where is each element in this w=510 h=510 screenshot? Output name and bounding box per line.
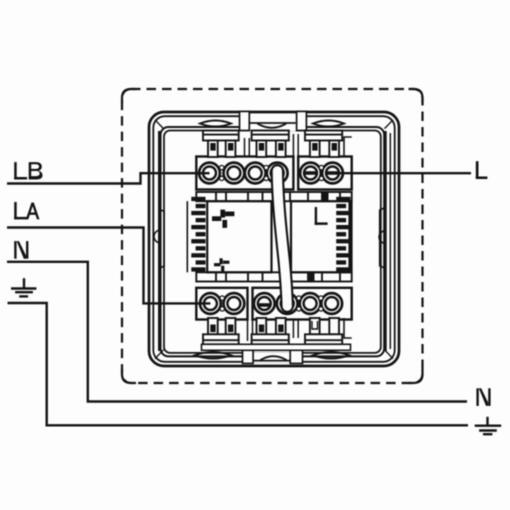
terminal screw bottom 4 (loop in)	[277, 293, 298, 314]
loop wire from top terminal 4 to bottom terminal 4	[277, 171, 287, 306]
bottom segmented rail	[196, 272, 351, 281]
screw cross large	[212, 210, 234, 228]
wire LB	[7, 173, 210, 183]
switch frame second edge	[153, 116, 394, 362]
claw-frame inner edge	[164, 131, 381, 353]
bottom clamp unit 2	[252, 318, 289, 344]
label LA	[14, 202, 39, 219]
bottom frame slot right	[313, 352, 349, 359]
top block divider wall	[293, 134, 298, 157]
corner bevel bottom-right	[385, 350, 394, 359]
bottom frame slot left	[195, 352, 231, 359]
top fixing tab	[240, 111, 307, 131]
bottom block right end piece	[344, 318, 352, 338]
label N right	[476, 388, 490, 406]
mechanism left wall	[186, 201, 188, 272]
left serrated claw strip	[191, 197, 205, 272]
top terminal block left	[196, 157, 293, 190]
top segmented rail	[196, 192, 351, 201]
right gang cover	[291, 201, 350, 272]
screw cross small	[214, 258, 229, 271]
claw-frame outer edge	[161, 127, 385, 356]
terminal screw bottom 1 (LA)	[200, 293, 221, 314]
top clamp divider post	[245, 138, 250, 157]
mechanism right wall	[350, 201, 353, 272]
top block right end piece	[344, 137, 352, 157]
terminal screw bottom 5	[300, 293, 321, 314]
bottom rail bar	[202, 344, 351, 350]
wire LA	[7, 228, 210, 304]
wire PE	[8, 303, 469, 425]
bottom clamp unit 1	[203, 318, 239, 344]
terminal screw bottom 6	[321, 293, 342, 314]
top clamp unit 3	[305, 131, 342, 158]
terminal screw top 2	[224, 163, 245, 184]
terminal screw bottom 3	[254, 293, 275, 314]
bottom fixing tab	[243, 345, 303, 364]
bottom clamp unit 3	[305, 318, 342, 344]
terminal screw top 4 (loop out)	[267, 163, 288, 184]
left gang cover	[207, 201, 271, 272]
wire N	[7, 262, 467, 402]
bottom terminal block left	[196, 288, 247, 320]
left claw channel	[154, 131, 164, 351]
dashed outline solid corners	[122, 89, 423, 383]
top clamp unit 1	[203, 131, 239, 158]
junction dots top row	[220, 165, 324, 180]
terminal screw top 1 (LB)	[199, 163, 220, 184]
wire L	[333, 172, 472, 174]
switch frame outer edge	[149, 112, 399, 366]
ground symbol left	[11, 278, 36, 296]
bottom clamp divider post	[293, 320, 298, 338]
label N left	[14, 241, 28, 259]
corner bevel top-left	[155, 120, 164, 129]
corner bevel top-right	[385, 120, 394, 129]
dashed flush-box outline	[122, 89, 423, 383]
label L right	[476, 161, 488, 179]
external wiring	[7, 173, 471, 425]
bottom terminal block right	[253, 288, 352, 320]
corner bevel bottom-left	[155, 350, 164, 359]
terminal screw top 6 (L)	[322, 163, 343, 184]
top clamp unit 2	[252, 131, 289, 158]
top frame slot left	[200, 121, 231, 127]
right claw channel	[379, 131, 390, 351]
terminal screw bottom 2	[224, 293, 245, 314]
terminal screw top 3	[245, 163, 266, 184]
mechanism marking L	[315, 207, 328, 225]
terminal screw top 5	[300, 163, 321, 184]
label LB	[14, 162, 42, 179]
top frame slot right	[313, 121, 344, 127]
junction dots bottom row	[220, 296, 323, 311]
bottom block divider wall	[248, 320, 253, 342]
ground symbol right	[475, 417, 502, 434]
right serrated claw strip	[336, 197, 350, 272]
top terminal block right	[298, 157, 352, 190]
